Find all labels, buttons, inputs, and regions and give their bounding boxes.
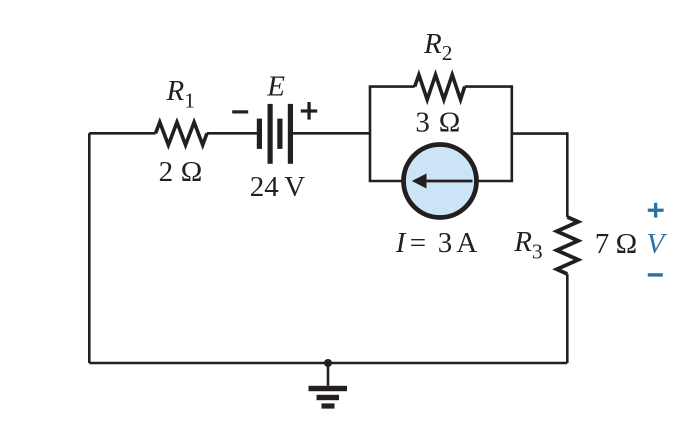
resistor R1 (156, 122, 208, 145)
svg-text:Ω: Ω (616, 228, 638, 260)
wire block top edge right (465, 85, 513, 88)
value label 2 ohms (159, 156, 203, 188)
resistor R3 (557, 217, 578, 274)
battery E plate 1 short (257, 119, 262, 149)
wire right vertical upper (566, 132, 569, 217)
polarity minus sign (blue) (648, 273, 663, 276)
wire top-left segment (89, 132, 155, 135)
wire battery to parallel block (293, 132, 370, 135)
svg-text:7: 7 (595, 228, 610, 260)
svg-text:=: = (410, 227, 426, 259)
value label 3 ohms (415, 107, 460, 139)
svg-text:Ω: Ω (439, 107, 461, 139)
wire block to right corner (512, 132, 568, 135)
battery E plate 2 tall (268, 104, 273, 164)
wire block bottom edge (369, 180, 513, 183)
svg-text:2: 2 (159, 156, 174, 188)
value label 24 V (250, 171, 305, 203)
resistor R2 (415, 75, 465, 100)
svg-text:3: 3 (415, 107, 430, 139)
ground (309, 363, 348, 409)
wire bottom (89, 362, 567, 365)
svg-text:Ω: Ω (181, 156, 203, 188)
battery E plate 4 tall (288, 104, 293, 164)
wire R1 to battery (207, 132, 257, 135)
svg-text:A: A (456, 227, 477, 259)
junction dot at ground node (324, 359, 332, 367)
svg-text:E: E (266, 71, 285, 103)
battery minus sign (232, 110, 248, 113)
battery plus sign (301, 102, 317, 120)
wire block top edge left (369, 85, 415, 88)
svg-text:V: V (284, 171, 305, 203)
svg-text:I: I (395, 227, 407, 259)
wire left vertical (88, 133, 91, 363)
wire right vertical lower (566, 274, 569, 363)
svg-text:3: 3 (438, 227, 453, 259)
battery E plate 3 short (277, 119, 282, 149)
svg-text:24: 24 (250, 171, 279, 203)
value label 7 ohms (595, 228, 637, 260)
current source I (404, 145, 477, 218)
wire parallel block left side (369, 87, 372, 181)
polarity plus sign (blue) (648, 203, 664, 218)
wire block right side (510, 87, 513, 181)
value label I = 3 A (395, 227, 478, 259)
